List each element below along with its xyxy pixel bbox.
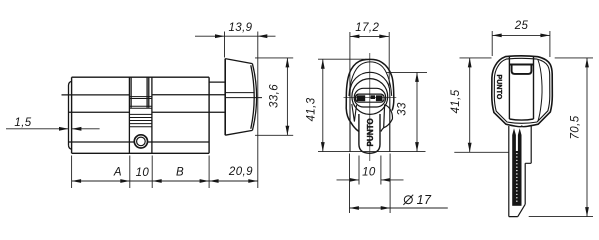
svg-text:20,9: 20,9 bbox=[228, 166, 253, 178]
knob profile edges and arcs bbox=[225, 59, 256, 136]
dimension diameter 17 bbox=[349, 154, 447, 214]
svg-text:33,6: 33,6 bbox=[269, 84, 281, 108]
key head notch bbox=[509, 65, 533, 74]
svg-text:70,5: 70,5 bbox=[569, 115, 581, 139]
svg-text:B: B bbox=[176, 167, 184, 179]
key head insert bbox=[509, 56, 533, 120]
svg-text:41,5: 41,5 bbox=[450, 89, 462, 113]
cam fixing screw hole bbox=[134, 135, 147, 148]
key blade dimples bbox=[516, 153, 517, 202]
svg-text:17: 17 bbox=[417, 193, 432, 207]
dimension 10 (stem) bbox=[337, 156, 404, 185]
dimension 10 (cam) bbox=[130, 180, 152, 182]
diameter symbol bbox=[403, 195, 413, 205]
dimension 13,9 bbox=[195, 32, 276, 189]
svg-text:A: A bbox=[113, 167, 122, 179]
dimension 25 bbox=[492, 31, 550, 57]
knob front view: left wing crease bbox=[352, 104, 357, 122]
knob front view: boss circle bbox=[352, 79, 388, 115]
svg-text:10: 10 bbox=[136, 167, 150, 179]
knob grip slot bbox=[355, 94, 384, 102]
key head side shading curve bbox=[538, 59, 542, 122]
cam rings bbox=[129, 114, 152, 126]
dimension 17,2 bbox=[350, 32, 389, 88]
dimension 70,5 bbox=[529, 58, 593, 217]
svg-text:13,9: 13,9 bbox=[229, 22, 253, 34]
knob front view: centerlines bbox=[344, 53, 397, 161]
cylinder front face plate bbox=[69, 81, 72, 149]
cylinder body outline (side view) bbox=[72, 77, 210, 153]
key blade outline bbox=[509, 126, 531, 217]
cam housing section bbox=[129, 77, 152, 153]
knob band lines bbox=[225, 93, 262, 98]
cam horizontal lines bbox=[129, 97, 152, 109]
svg-text:1,5: 1,5 bbox=[14, 117, 31, 129]
svg-text:17,2: 17,2 bbox=[355, 22, 379, 34]
dimension A bbox=[72, 180, 130, 182]
svg-text:PUNTO: PUNTO bbox=[366, 118, 375, 146]
dimension 33 bbox=[387, 72, 428, 151]
dimension 20,9 bbox=[209, 180, 258, 182]
bottom extension lines bbox=[72, 156, 210, 189]
knob front view: grip boss stadium bbox=[354, 88, 386, 107]
knob grip slot blocks bbox=[357, 95, 383, 101]
svg-text:41,3: 41,3 bbox=[305, 97, 317, 121]
dimension B bbox=[152, 180, 209, 182]
cylinder body behind knob (front view) bbox=[350, 72, 390, 151]
key head outer outline bbox=[492, 56, 553, 127]
dimension 41,5 bbox=[454, 58, 508, 152]
key head inner outline bbox=[494, 58, 550, 123]
knob neck collar bbox=[209, 81, 225, 83]
svg-text:33: 33 bbox=[396, 102, 408, 116]
knob front view: inner dome line bbox=[349, 62, 392, 96]
dimension 41,3 bbox=[318, 59, 426, 151]
dimension 1,5 bbox=[6, 128, 100, 130]
cylinder body horizontal lines bbox=[62, 95, 226, 142]
key blade grooves bbox=[512, 128, 521, 206]
dimension 33,6 bbox=[255, 58, 293, 135]
knob front view: outer silhouette bbox=[346, 59, 394, 131]
svg-text:25: 25 bbox=[514, 20, 529, 32]
svg-text:10: 10 bbox=[362, 167, 376, 179]
thumbturn knob (side view) bbox=[224, 59, 226, 136]
svg-text:PUNTO: PUNTO bbox=[495, 75, 502, 100]
knob front view: stem bbox=[359, 114, 380, 153]
knob front view: right wing flap bbox=[381, 105, 393, 132]
